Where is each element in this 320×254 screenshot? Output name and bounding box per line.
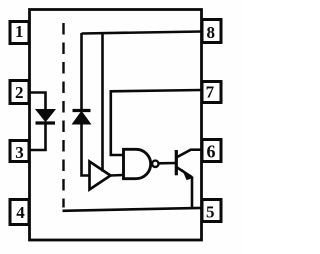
transistor Q1 emitter arrowhead — [183, 171, 192, 180]
LED D1 anode triangle — [36, 110, 55, 122]
dashed isolation barrier — [62, 21, 64, 208]
svg-text:4: 4 — [16, 203, 25, 222]
NAND gate U2 output bubble — [152, 161, 158, 167]
amplifier U1 triangle — [90, 162, 111, 190]
svg-text:7: 7 — [206, 83, 215, 102]
svg-text:8: 8 — [206, 23, 215, 42]
photodiode D2 cathode bar — [73, 109, 91, 112]
svg-text:6: 6 — [207, 142, 216, 162]
transistor Q1 collector — [176, 150, 191, 158]
pin 7 pad — [202, 82, 221, 103]
wire photodiode anode to amplifier input — [82, 124, 89, 176]
pin 6 pad — [202, 140, 221, 162]
svg-text:2: 2 — [15, 83, 24, 102]
pin 8 pad — [202, 20, 221, 43]
pin 3 pad — [10, 141, 29, 162]
wire amplifier output to NAND lower input — [111, 174, 124, 177]
svg-text:1: 1 — [15, 22, 24, 41]
NAND gate U2 body — [124, 149, 151, 178]
pin 5 pad — [202, 200, 221, 222]
svg-text:5: 5 — [206, 203, 215, 222]
svg-text:3: 3 — [15, 143, 24, 162]
wire LED cathode to pin3 — [31, 123, 46, 150]
wire NAND output to transistor base — [159, 162, 177, 165]
Vcc rail wire to pin 8 — [82, 32, 202, 34]
ground rail wire to pin 5 — [63, 208, 202, 211]
wire Vcc rail to amplifier power — [101, 33, 104, 172]
transistor Q1 base bar — [175, 150, 178, 175]
transistor Q1 emitter — [176, 167, 192, 177]
wire pin7 enable — [111, 90, 202, 155]
wire Vcc rail to photodiode cathode — [80, 33, 83, 110]
wire collector to pin 6 — [190, 148, 202, 151]
pin 1 pad — [10, 22, 29, 44]
pin 4 pad — [10, 200, 29, 225]
wire pin2 to LED anode — [31, 93, 46, 111]
pin 2 pad — [10, 81, 29, 104]
LED D1 cathode bar — [36, 121, 56, 124]
wire emitter down to ground rail — [191, 177, 194, 209]
photodiode D2 anode triangle — [73, 112, 91, 125]
IC package outline — [30, 10, 202, 241]
